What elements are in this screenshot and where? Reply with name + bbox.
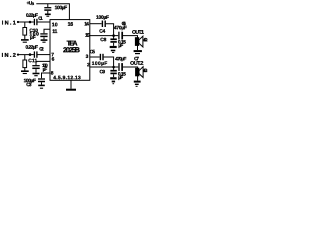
svg-text:11: 11 (52, 29, 57, 35)
svg-text:2: 2 (87, 62, 90, 68)
svg-text:µF: µF (43, 67, 48, 73)
node junction IN.2 (29, 53, 32, 56)
svg-text:+UB: +UB (27, 0, 35, 6)
svg-text:µF: µF (118, 75, 123, 81)
svg-text:C5: C5 (90, 49, 96, 55)
capacitor C9 0.15uF to ground (110, 67, 117, 84)
svg-text:OUT.1: OUT.1 (132, 30, 144, 36)
wire IN.1 to pin 10 (18, 21, 34, 23)
svg-text:C1: C1 (38, 16, 43, 22)
capacitor C10 100uF on pin 11 (40, 29, 50, 42)
svg-text:14: 14 (84, 22, 89, 28)
speaker SPK2 4ohm (134, 67, 143, 87)
capacitor C1 0.22uF (34, 19, 37, 25)
svg-text:100µF: 100µF (55, 5, 68, 11)
capacitor C6 470uF output (119, 32, 122, 40)
wire IN.2 to pin 7 (18, 54, 34, 56)
ground under IC (66, 80, 76, 89)
svg-text:2025B: 2025B (63, 45, 80, 54)
svg-text:C11: C11 (28, 58, 37, 64)
capacitor 100uF supply decoupling (44, 4, 51, 16)
wire pin 14 bootstrap (90, 23, 102, 25)
svg-text:470µF: 470µF (114, 25, 127, 31)
svg-text:µF: µF (30, 35, 36, 41)
wire OUT.2 pin 2 (90, 66, 119, 68)
svg-text:100µF: 100µF (96, 15, 109, 21)
svg-text:4Ω: 4Ω (143, 37, 147, 43)
capacitor C7 470uF output (119, 63, 122, 71)
svg-text:IN.1: IN.1 (2, 20, 16, 26)
speaker SPK1 4ohm (134, 36, 143, 53)
svg-text:16: 16 (68, 22, 74, 28)
node +Ub supply rail (36, 4, 69, 20)
svg-text:4.5.9.12.13: 4.5.9.12.13 (53, 75, 81, 81)
svg-text:IN.2: IN.2 (2, 53, 16, 59)
svg-text:15: 15 (85, 33, 90, 39)
wire pin 3 bootstrap (90, 56, 100, 58)
op-amp U1 TEA2025B box (50, 20, 90, 81)
svg-text:100µF: 100µF (92, 61, 108, 67)
svg-text:OUT.2: OUT.2 (130, 61, 143, 67)
wire OUT.1 pin 15 (90, 35, 118, 37)
svg-text:3: 3 (86, 54, 89, 60)
node junction IN.1 (29, 21, 32, 24)
svg-text:C9: C9 (99, 69, 105, 75)
capacitor C8 0.15uF to ground (110, 36, 117, 53)
capacitor C2 0.22uF (34, 51, 37, 57)
resistor R1 input load (21, 22, 29, 42)
svg-text:0.22µF: 0.22µF (25, 45, 38, 51)
svg-text:470µF: 470µF (115, 56, 126, 62)
capacitor C3 100uF on pin 8 (38, 73, 50, 88)
svg-text:6: 6 (52, 57, 55, 63)
svg-text:0.22µF: 0.22µF (26, 13, 38, 19)
svg-text:C3: C3 (26, 82, 31, 88)
svg-text:C4: C4 (99, 29, 105, 35)
capacitor C11 100uF on pin 6 (32, 61, 50, 75)
capacitor C5 100uF (100, 54, 103, 60)
svg-text:µF: µF (118, 43, 123, 49)
resistor R2 input load (21, 55, 29, 74)
svg-text:C2: C2 (39, 46, 44, 52)
svg-text:C8: C8 (100, 37, 106, 43)
capacitor C4 100uF (102, 21, 105, 28)
svg-text:4Ω: 4Ω (143, 68, 147, 74)
svg-text:10: 10 (52, 22, 58, 28)
